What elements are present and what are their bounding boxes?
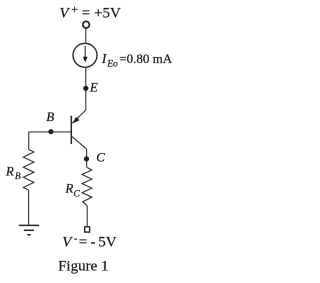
transistor base bar [70,116,72,144]
transistor collector lead [72,136,87,149]
svg-text:=0.80 mA: =0.80 mA [119,51,172,66]
resistor RB (zigzag) [23,150,34,191]
svg-text:B: B [15,172,21,182]
wire from collector to node C and RC [86,149,88,168]
caption Figure 1 [58,259,108,275]
label V- = -5V [62,232,116,250]
svg-text:R: R [64,181,73,196]
terminal V+ (open circle) [83,21,90,28]
label RC [64,181,80,200]
label V+ = +5V [60,2,121,21]
svg-text:C: C [96,150,105,165]
svg-text:E: E [89,80,98,95]
transistor emitter arrowhead [73,117,80,124]
label C [96,150,105,165]
svg-text:Figure 1: Figure 1 [58,259,108,275]
current source IEo (circle) [73,43,97,67]
ground [19,225,39,234]
resistor RC (zigzag) [82,167,92,205]
transistor Q1 (PNP) [71,110,86,149]
wire from V+ terminal to current source [85,28,87,43]
svg-text:B: B [46,109,54,124]
node E (junction dot) [83,86,88,91]
svg-text:R: R [5,164,14,179]
wire from RC to V- terminal [86,206,88,227]
label IEo = 0.80 mA [101,51,173,69]
transistor emitter lead [72,110,86,123]
label B [46,109,54,124]
base wire [29,131,71,133]
node C (junction dot) [84,156,89,161]
wire from RB to ground [28,190,30,225]
svg-text:V+= +5V: V+= +5V [60,2,121,21]
label E [89,80,98,95]
svg-text:V-=-5V: V-=-5V [62,232,116,250]
svg-text:C: C [74,189,81,199]
svg-text:Eo: Eo [106,60,118,70]
label RB [5,164,21,183]
node B (junction dot) [48,129,53,134]
current source arrow [83,46,88,63]
terminal V- (open square) [85,227,90,232]
wire from base corner down to RB [28,132,30,150]
wire from current source to emitter [85,67,87,110]
